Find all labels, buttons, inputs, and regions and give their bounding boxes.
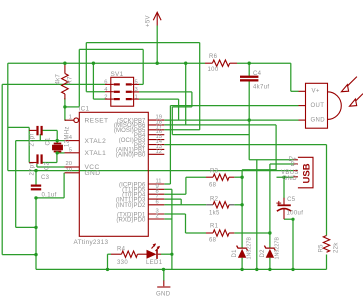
svg-text:R7: R7 [67,76,73,85]
wire C1 bottom lead [39,134,41,141]
junction C4 top on rail [248,62,251,65]
svg-text:D1: D1 [232,249,238,258]
wire PD6 pin11 horizontal [164,183,170,185]
IC1 left pin stubs [65,118,80,173]
wire D2 net vertical x=269.9 [269,164,271,248]
junction D2 on rail [268,268,271,271]
wire VBUS drop x=276.1 [275,125,277,171]
+5V supply symbol [153,12,161,25]
wire C3 bottom vertical to rail [35,198,37,270]
junction C5 drop on rail [291,268,294,271]
svg-text:68: 68 [209,183,217,189]
svg-text:GND: GND [85,170,101,177]
svg-text:V+: V+ [312,89,320,95]
resistor R7 [62,63,69,99]
junction C5 top [282,176,285,179]
IC1 pin numbers right [156,115,163,220]
wire C1 right lead to XTAL2 [42,129,58,131]
wire D2 bottom to rail [269,258,271,270]
wire PB5 pin17 horizontal [164,129,199,131]
svg-text:C2: C2 [45,161,51,170]
wire C5 branch horizontal y=223.2 [284,218,293,220]
wire D1 net vertical x=242.1 [241,170,243,248]
wire pin8 riser to R3 [185,177,187,194]
svg-text:D2: D2 [260,249,266,258]
wire D1 net top corner horizontal [242,169,276,171]
junction R1 right D2 net [268,231,271,234]
wire into SV1 pin2 [93,98,105,100]
svg-text:D-: D- [291,162,298,168]
svg-text:LED1: LED1 [146,260,163,266]
wire PD3 pin7 horizontal [164,198,181,200]
svg-text:(RXD)PD0: (RXD)PD0 [116,217,146,223]
capacitor C2 [36,154,42,163]
junction C3 bottom [34,196,37,199]
wire USB D+ horizontal [249,159,293,161]
wire reset top horizontal y=49.4 [79,48,143,50]
junction D1 on rail [240,268,243,271]
wire drop to SV1 pin5 [142,49,144,84]
wire R4 left stub [108,253,112,255]
wire VCC drop x=185.7 [185,63,187,125]
SV1 pin numbers [104,80,137,101]
wire R7 bottom to reset junction [64,98,66,120]
svg-text:GND: GND [156,291,171,297]
wire reset junction to riser [65,106,79,108]
svg-text:+5V: +5V [146,15,152,27]
wire R2 right to D1 net [234,204,242,206]
IC1 pin names [85,118,147,224]
wire R5 bottom to rail [326,255,328,270]
svg-text:68: 68 [209,238,217,244]
svg-text:100: 100 [208,67,219,73]
svg-text:1k5: 1k5 [209,211,220,217]
wire SV1 pin1 horizontal [139,98,179,100]
svg-text:C1: C1 [46,137,52,146]
svg-text:1: 1 [69,115,72,121]
wire PD0 pin2 horizontal [164,218,172,220]
wire R4 left drop to rail [107,254,109,269]
junction GND stem on rail [162,268,165,271]
wire SV1 pin3 drop [191,92,193,107]
svg-text:2: 2 [104,94,107,100]
resistor R5 [323,236,329,253]
svg-text:USB: USB [302,163,313,183]
IC1 ATtiny2313 box [79,112,148,236]
svg-text:OUT: OUT [311,103,325,109]
junction jog on C3 net [34,226,37,229]
svg-text:(INT0)PD2: (INT0)PD2 [116,203,146,209]
svg-text:6: 6 [104,80,107,86]
capacitor C1 left lead [29,129,36,131]
wire PD1 pin3 horizontal [164,213,185,215]
svg-text:0.1uf: 0.1uf [42,193,57,199]
crystal Q1 [53,144,63,152]
capacitor C4 [240,76,258,82]
resistor R1 [206,230,234,236]
LED LED1 [147,243,162,259]
USB connector symbol [298,157,313,188]
junction C3 top on VCC line [34,169,37,172]
wire C5 bottom drop to rail [292,219,294,269]
svg-text:6: 6 [156,199,159,205]
wire pin9/pin2/LED vertical x=171.9 [171,189,173,269]
wire left rail x=7.5 down [7,63,9,170]
wire crystal top lead [56,141,58,144]
wire GND symbol stem [163,269,165,280]
junction +5V on rail [156,62,159,65]
pin header SV1 box [111,77,134,106]
wire R1 right to D2 net [234,232,270,234]
resistor R6 [205,60,237,66]
wire R5 drop x=326.5 [326,145,328,236]
svg-text:XTAL1: XTAL1 [85,150,107,157]
svg-text:GND: GND [283,176,298,182]
svg-text:20: 20 [66,161,72,167]
svg-text:GND: GND [311,118,326,124]
svg-text:R1: R1 [210,224,219,230]
wire C2 plate to VCC riser [36,164,38,167]
IC1 pin numbers left [66,115,73,174]
wire VCC to SV1 pin2 vertical [92,63,94,99]
wire C2 to VCC pin horizontal [37,166,65,168]
junction R3 right [240,176,243,179]
svg-text:100uf: 100uf [287,211,304,217]
wire D1 bottom to rail [241,258,243,270]
SV1 pin stubs [105,84,139,99]
svg-text:12MHz: 12MHz [65,126,71,147]
wire D+ branch down x=256.8 [256,160,258,270]
junction D+ drop on rail [255,268,258,271]
wire SV1 pin1 drop to PB7 [178,99,180,120]
wire branch to C1 top horizontal [8,126,29,128]
IR receiver pin stubs [299,91,306,120]
wire IR OUT horizontal y=105.6 [170,105,298,107]
wire USB D- horizontal [270,163,294,165]
svg-text:12: 12 [156,149,162,155]
wire far-left vertical x=2.2 [1,84,3,254]
zener diode D2 [264,246,275,258]
wire pin3 jog horizontal [172,106,192,108]
svg-text:(AIN0)PB0: (AIN0)PB0 [116,153,146,159]
junction LED wire on vertical [170,253,173,256]
wire ground rail bottom [36,268,327,270]
wire C3 bottom horizontal y=197.9 [36,197,64,199]
svg-text:1N5227B: 1N5227B [247,237,253,260]
svg-text:C4: C4 [253,71,262,77]
svg-text:330: 330 [117,260,128,266]
USB pin stubs [294,160,298,177]
svg-text:ATtiny2313: ATtiny2313 [74,239,109,246]
svg-text:R2: R2 [210,197,219,203]
resistor R2 (gray leads) [206,204,234,206]
wire C2 right lead to XTAL1 [42,162,57,164]
wire C5 top lead [283,177,285,198]
svg-text:2: 2 [156,214,159,220]
svg-text:R3: R3 [210,169,219,175]
ground symbol [163,281,165,287]
wire cap-gnd branch vertical x=29.2 [28,127,30,162]
wire pin3 drop to R1 [185,214,187,233]
wire R1 left horizontal [186,232,207,234]
wire +5V symbol stem [156,26,158,64]
svg-text:1N5227B: 1N5227B [274,237,280,260]
wire IR V+ horizontal [291,90,299,92]
wire PD5 pin9 horizontal [164,188,172,190]
IR incoming light arrow 2 [350,94,363,107]
svg-text:5: 5 [135,80,138,86]
wire +5V rail horizontal [8,62,205,64]
capacitor C3 [31,185,41,191]
svg-text:1: 1 [135,94,138,100]
wire into SV1 pin5 [139,83,143,85]
IR incoming light arrow 1 [341,77,357,92]
svg-text:27pf: 27pf [29,162,35,175]
IR receiver module box [306,83,342,128]
wire RESET pin horizontal [65,119,66,121]
svg-text:27pf: 27pf [29,133,35,146]
junction R4 on rail [106,268,109,271]
svg-text:4k7uf: 4k7uf [253,85,269,91]
junction C5 bottom lead [291,218,294,221]
svg-text:R6: R6 [209,54,218,60]
svg-text:10: 10 [66,167,72,173]
wire PD4 pin8 horizontal [164,193,186,195]
wire C4 top lead [248,63,250,77]
capacitor C2 left lead [29,162,36,164]
wire XTAL2 left vertical down [15,141,17,228]
wire into SV1 pin4 [86,91,105,93]
wire bottom-left horizontal y=254.6 [2,254,36,256]
junction R2 right [240,203,243,206]
junction bottom-left on GND drop [34,253,37,256]
wire LED right to vertical [161,253,172,255]
wire long VCC/VBUS horizontal y=170.6 [8,170,294,172]
zener diode D1 [237,246,248,258]
svg-text:SV1: SV1 [111,71,124,78]
wire IR OUT riser x=170.4 [169,106,171,184]
svg-text:5: 5 [69,147,72,153]
junction reset net [63,105,66,108]
wire pin7 drop to R2 line [180,199,182,205]
junction C4 on PB7 line [248,118,251,121]
capacitor C5 polarized [276,198,291,219]
wire XTAL2 line [16,140,65,142]
junction crystal top on XTAL2 [56,139,59,142]
USB pin names [281,157,299,182]
wire PB7/IR-GND long horizontal y=120.1 [164,119,298,121]
wire IR V+ vertical drop [290,63,292,91]
wire PB6 horizontal y=124.9 [164,124,276,126]
wire R3 left horizontal [186,176,206,178]
SV1 pads [114,83,132,100]
junction R7 top [63,62,66,65]
wire PB2 pin14 long horizontal y=144.6 [164,144,326,146]
svg-text:22k: 22k [334,242,340,253]
svg-text:C5: C5 [287,197,296,203]
wire PD2 pin6 to R2 horizontal [164,204,206,206]
junction SV1 pin2 net on rail [92,62,95,65]
wire C4 bottom vertical to D+ [248,80,250,160]
svg-text:XTAL2: XTAL2 [85,138,107,145]
resistor R3 [206,174,234,180]
wire SV1 pin3 horizontal [139,91,192,93]
resistor R4 [111,251,147,257]
wire crystal bottom lead [56,152,58,153]
capacitor C1 [36,126,42,135]
wire XTAL1 line [57,152,64,154]
wire GND pin riser x=64.1 [63,173,65,198]
wire drop to SV1 pin4 [85,43,87,92]
wire C3 top lead [35,171,37,186]
junction VCC drop on rail [184,62,187,65]
junction crystal bottom on XTAL1 [56,151,59,154]
svg-text:IC1: IC1 [79,106,90,113]
svg-text:C3: C3 [41,175,50,181]
svg-text:R5: R5 [319,244,325,253]
wire USB GND horizontal [277,176,294,178]
wire R3 right to D1 net [234,176,242,178]
wire pin3 net to D+ horizontal y=134.6 [172,134,249,136]
wire jog into C3 net horizontal [16,226,36,228]
IC1 right pin stubs [148,120,164,219]
wire pin3 jog drop [171,107,173,135]
wire +5V rail right of R6 to corner [237,62,291,64]
wire reset riser x=79.3 [78,49,80,107]
svg-text:R4: R4 [117,247,126,253]
IR receiver pin names [311,89,326,124]
svg-text:3: 3 [135,87,138,93]
svg-text:4k7: 4k7 [56,73,62,84]
svg-text:RESET: RESET [85,118,109,125]
wire drop to PB5 pin17 [199,43,201,130]
wire SV1 pin6 long horizontal [2,83,105,85]
wire MOSI top horizontal y=42.6 [86,42,199,44]
